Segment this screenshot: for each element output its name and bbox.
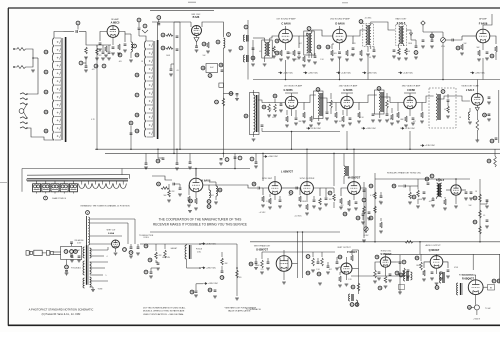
- svg-text:.05: .05: [483, 215, 485, 217]
- tube V16: [341, 263, 352, 274]
- svg-text:VERT OUTPUT: VERT OUTPUT: [337, 247, 351, 249]
- svg-text:120: 120: [239, 277, 242, 279]
- wire x131 drop: [129, 121, 133, 150]
- transformer T8: [429, 88, 456, 128]
- wire ant to bandswitch: [27, 58, 38, 94]
- svg-text:D 6AU6: D 6AU6: [335, 21, 345, 25]
- components V7: [334, 103, 376, 130]
- svg-text:RECEIVER MAKES IT POSSIBLE TO: RECEIVER MAKES IT POSSIBLE TO BRING YOU …: [153, 223, 247, 227]
- wire feed top: [157, 19, 180, 24]
- transformer T6: [314, 88, 324, 125]
- wire video out right: [487, 90, 499, 167]
- wire sound in: [239, 20, 248, 80]
- wires V8: [404, 93, 422, 116]
- CRT neck: [34, 250, 47, 255]
- components V9: [468, 97, 491, 142]
- text copyright: [42, 313, 81, 316]
- label V2: [192, 14, 201, 19]
- wires V11: [263, 188, 287, 200]
- svg-text:HORIZ OSC: HORIZ OSC: [381, 251, 392, 253]
- svg-text:.05: .05: [272, 117, 274, 119]
- components T3: [359, 47, 376, 62]
- svg-text:+ 9000 V: + 9000 V: [473, 318, 481, 320]
- svg-text:A 6BC5: A 6BC5: [111, 22, 120, 25]
- label V19: [459, 275, 475, 281]
- text note2 l1: [224, 306, 257, 309]
- label V11: [262, 170, 293, 180]
- tube V10: [189, 178, 203, 192]
- label V4: [330, 17, 350, 25]
- components V3 cathode: [275, 50, 290, 61]
- tube V14: [451, 185, 461, 195]
- caps sync row: [144, 158, 192, 170]
- components V10: [187, 185, 211, 210]
- riser x256: [250, 153, 258, 168]
- wires V16: [346, 257, 358, 280]
- components V19: [457, 279, 500, 295]
- wires CRT: [53, 252, 61, 255]
- transformer T10: [431, 179, 447, 210]
- svg-text:2ND VIDEO IF AMP: 2ND VIDEO IF AMP: [339, 84, 358, 87]
- svg-text:AUDIO OUTPUT: AUDIO OUTPUT: [425, 244, 441, 247]
- test points L2 column: [135, 53, 139, 133]
- svg-text:.05: .05: [176, 70, 178, 72]
- wires V5: [462, 14, 496, 50]
- components V15 left: [249, 252, 270, 274]
- wire sync right: [209, 185, 250, 188]
- transformer T2: [304, 27, 314, 62]
- label V8: [402, 84, 421, 92]
- electrolytic C20: [430, 32, 434, 48]
- components V11: [250, 176, 282, 214]
- wire rail y242: [250, 241, 500, 243]
- CRT socket plug: [26, 251, 32, 256]
- risers deflection: [262, 148, 355, 186]
- svg-text:+135 VDC: +135 VDC: [311, 128, 321, 130]
- wires V3: [286, 26, 300, 50]
- svg-text:+265 VDC: +265 VDC: [475, 72, 485, 74]
- svg-text:MODELS. WHEN DOTTED IN PARTS A: MODELS. WHEN DOTTED IN PARTS ARE: [143, 310, 185, 313]
- svg-text:.01: .01: [369, 57, 371, 59]
- B+ arrow 1: [199, 243, 216, 246]
- wire IF feed B: [179, 22, 181, 150]
- RF tuning coil ladder L1: [53, 37, 66, 142]
- focus pot: [65, 260, 81, 276]
- label drum note: [81, 204, 130, 207]
- caps left of yoke: [70, 250, 81, 262]
- component on x222: [215, 83, 239, 106]
- svg-text:A PHOTOFACT STANDARD NOTATION: A PHOTOFACT STANDARD NOTATION SCHEMATIC: [29, 307, 94, 311]
- svg-text:VERT OUT: VERT OUT: [106, 230, 116, 232]
- B+ arrows sound: [278, 72, 485, 75]
- wire V15 box: [297, 231, 304, 278]
- tube V5: [476, 29, 490, 43]
- svg-text:+10 VDC: +10 VDC: [294, 216, 302, 218]
- transformer T1: [253, 38, 272, 66]
- svg-text:+265 VDC: +265 VDC: [366, 128, 376, 130]
- label V3: [276, 17, 296, 25]
- wire sync grid: [152, 176, 172, 180]
- label V20: [106, 230, 116, 235]
- components on feed: [161, 33, 179, 76]
- label V18: [425, 244, 441, 252]
- svg-text:.01: .01: [444, 109, 446, 111]
- tube V15: [276, 256, 292, 272]
- afc left column: [362, 173, 383, 243]
- wire v x253: [251, 40, 255, 66]
- wire T6 to V7: [318, 98, 341, 103]
- components T7: [371, 93, 394, 125]
- svg-text:(C) Howard W. Sams & Co., Inc.: (C) Howard W. Sams & Co., Inc. 1952: [42, 313, 81, 316]
- svg-text:C 6AU6: C 6AU6: [281, 21, 291, 25]
- wire T3 to T4: [371, 22, 395, 30]
- svg-text:.047: .047: [412, 121, 415, 123]
- components sync in: [157, 182, 182, 202]
- drum contact squares: [33, 181, 78, 194]
- wire vert out right: [351, 275, 404, 277]
- svg-text:COILS: COILS: [143, 237, 149, 239]
- wires V1: [100, 32, 125, 46]
- antenna terminal AN1: [13, 48, 29, 51]
- wire bus x222: [0, 0, 1, 1]
- wires V14: [446, 190, 466, 208]
- wires V7: [341, 93, 359, 116]
- yoke winding 2: [83, 261, 85, 275]
- drum bar: [27, 179, 128, 181]
- tube V17: [380, 257, 390, 267]
- margin speck 1: [188, 1, 196, 3]
- svg-text:H 6CB6: H 6CB6: [344, 89, 354, 92]
- coil L3: [125, 34, 136, 62]
- risers to sound rail: [285, 42, 483, 80]
- sync out coil: [209, 182, 222, 204]
- wire rail y153: [105, 152, 500, 154]
- svg-text:VALUE OR APPLICATION: VALUE OR APPLICATION: [228, 310, 251, 313]
- drum wiper arcs: [79, 181, 127, 189]
- text note1 l3: [143, 313, 185, 316]
- wire L1 top: [54, 32, 64, 39]
- svg-text:.002: .002: [298, 43, 301, 45]
- svg-text:+135 VDC: +135 VDC: [206, 243, 216, 245]
- wire to RF grid: [86, 32, 97, 46]
- label continued: [246, 308, 261, 311]
- vert out tube small: [90, 240, 127, 255]
- drum top line: [27, 175, 130, 179]
- transformer T3: [359, 20, 373, 56]
- resistor in rail y242: [405, 241, 413, 244]
- components V16: [335, 255, 353, 287]
- video mid rail: [261, 125, 340, 132]
- svg-text:B 6J6: B 6J6: [193, 16, 200, 19]
- svg-text:HEIGHT: HEIGHT: [171, 248, 177, 250]
- label V9: [461, 85, 479, 92]
- svg-text:.005: .005: [333, 53, 336, 55]
- transformer T7: [375, 87, 385, 122]
- B+ arrow 3: [190, 282, 218, 297]
- components V12 plate: [318, 188, 335, 210]
- text photofact: [29, 307, 94, 311]
- svg-text:270: 270: [311, 119, 314, 121]
- misc value labels: [91, 43, 491, 281]
- wires V4: [340, 26, 354, 50]
- border smudge: [150, 9, 214, 11]
- pilot lamp: [468, 305, 492, 310]
- yoke core: [87, 245, 89, 285]
- svg-text:.047: .047: [428, 201, 431, 203]
- yoke winding 3: [83, 278, 85, 288]
- band switch wafer S1A: [19, 93, 28, 129]
- wire T8 to det: [436, 96, 470, 101]
- svg-text:FOCUS: FOCUS: [196, 249, 203, 251]
- margin tick: [0, 182, 7, 184]
- wires V18: [424, 254, 448, 274]
- components V14 right: [464, 179, 489, 243]
- svg-text:+265 VDC: +265 VDC: [208, 283, 218, 285]
- components V15 right: [306, 252, 330, 285]
- components V5: [477, 46, 497, 61]
- svg-text:HORIZ AFC PHASE DET HORIZ OS: HORIZ AFC PHASE DET HORIZ OSC: [387, 171, 422, 174]
- CRT grid box: [61, 246, 82, 259]
- svg-text:VERT PHASE DET: VERT PHASE DET: [254, 245, 271, 248]
- tube V8: [404, 96, 416, 108]
- border left: [7, 8, 9, 326]
- wires V12: [287, 176, 320, 202]
- svg-text:+260 VDC: +260 VDC: [268, 156, 278, 158]
- yoke tap wires: [90, 250, 108, 287]
- label horiz afc: [387, 171, 422, 174]
- svg-text:* SEE PARTS LIST FOR ALTERNATE: * SEE PARTS LIST FOR ALTERNATE: [224, 306, 257, 309]
- svg-text:+265 VDC: +265 VDC: [206, 267, 216, 269]
- wires V6: [285, 93, 304, 116]
- transformer T11: [349, 294, 359, 306]
- svg-text:J 6AL5: J 6AL5: [466, 89, 475, 92]
- components V13: [339, 198, 365, 224]
- components V6: [285, 110, 321, 130]
- test points L1 column: [44, 50, 48, 133]
- components ratio det: [392, 40, 425, 60]
- transformer T12: [435, 272, 444, 289]
- svg-text:4.5 MC: 4.5 MC: [365, 18, 372, 20]
- osc trimmer C9: [157, 16, 161, 20]
- rail labels: [263, 144, 435, 158]
- label T3: [365, 18, 372, 20]
- components AF grid: [456, 44, 464, 55]
- wires V17: [375, 254, 420, 276]
- diamond TP: [421, 21, 425, 32]
- svg-text:TO HV: TO HV: [485, 308, 491, 310]
- ground ant: [31, 70, 35, 72]
- wires V15: [282, 250, 297, 284]
- svg-text:1ST VIDEO IF AMP: 1ST VIDEO IF AMP: [284, 84, 303, 87]
- svg-text:+265 VDC: +265 VDC: [367, 72, 377, 74]
- wire L2 top: [139, 22, 158, 41]
- wire vert right: [351, 250, 360, 294]
- wire conv to V6: [258, 100, 285, 103]
- fine tuning cap C8: [137, 18, 141, 36]
- components V17: [373, 255, 392, 290]
- label V13: [348, 176, 361, 179]
- volume control R21: [441, 32, 452, 48]
- label V5: [479, 17, 488, 25]
- svg-text:4: 4: [107, 256, 108, 258]
- svg-text:+ 0 VDC: + 0 VDC: [259, 212, 267, 214]
- svg-text:FOCUS ADJ: FOCUS ADJ: [71, 267, 81, 270]
- mixer coil ladder L2: [145, 40, 158, 139]
- svg-text:+135 VDC: +135 VDC: [425, 145, 435, 147]
- wire osc top: [0, 0, 1, 1]
- wire vert row top: [262, 251, 335, 253]
- components T2: [302, 45, 321, 67]
- wires V13: [341, 176, 367, 233]
- svg-text:HORIZ: HORIZ: [364, 235, 369, 237]
- transformer T4: [396, 25, 407, 46]
- svg-text:I 6CB6: I 6CB6: [407, 89, 415, 92]
- svg-text:2ND SOUND IF AMP: 2ND SOUND IF AMP: [330, 17, 350, 20]
- wire T7 to V8: [379, 97, 404, 103]
- tube V12: [301, 182, 314, 195]
- svg-text:5: 5: [106, 275, 107, 277]
- components T6: [309, 93, 332, 127]
- cluster below RF: [94, 45, 111, 68]
- wire bus x97: [96, 45, 98, 150]
- components V8: [396, 103, 424, 130]
- svg-text:S 6S4: S 6S4: [108, 232, 115, 235]
- svg-text:SYNC SEP: SYNC SEP: [262, 178, 273, 180]
- svg-text:VERT LIN: VERT LIN: [162, 257, 170, 259]
- wires V19: [462, 275, 488, 305]
- capacitor C1: [64, 30, 87, 33]
- border bottom: [8, 324, 500, 326]
- wire V8 plate: [422, 96, 434, 103]
- components V3 screen: [292, 50, 301, 61]
- components CRT box: [64, 242, 80, 256]
- tube V7: [341, 96, 353, 108]
- yoke secondary: [90, 248, 92, 287]
- test point TP3: [79, 57, 88, 72]
- antenna terminal AN2: [13, 66, 29, 69]
- text cooperation line2: [153, 223, 247, 227]
- label drum: [44, 196, 67, 200]
- svg-text:G 6CB6: G 6CB6: [283, 89, 293, 92]
- svg-text:VIDEO DET TUBE: VIDEO DET TUBE: [461, 85, 479, 87]
- margin speck 2: [342, 2, 348, 4]
- wire sound B+ rail: [253, 79, 500, 81]
- svg-text:.01: .01: [423, 271, 425, 273]
- riser x235b: [234, 156, 242, 160]
- components V2: [194, 38, 210, 54]
- svg-text:+140 VDC: +140 VDC: [403, 72, 413, 74]
- svg-text:.002: .002: [210, 195, 213, 197]
- wire right edge: [499, 254, 500, 283]
- svg-text:+140 VDC: +140 VDC: [283, 72, 293, 74]
- svg-text:N 6AL5: N 6AL5: [436, 179, 445, 182]
- wire rail y232: [150, 231, 340, 233]
- components focus: [144, 244, 177, 278]
- tube V11: [269, 182, 282, 195]
- svg-text:RATIO DET: RATIO DET: [396, 17, 408, 20]
- tube V4: [333, 29, 347, 43]
- risers rails: [291, 131, 411, 150]
- label V7: [339, 84, 358, 92]
- svg-text:270: 270: [295, 59, 298, 61]
- tube V6: [285, 96, 297, 108]
- svg-text:COIL: COIL: [197, 251, 201, 253]
- wires V10: [196, 169, 209, 199]
- yoke winding 1: [83, 247, 85, 258]
- label V17: [380, 251, 392, 257]
- ground mid: [188, 211, 192, 213]
- svg-text:.005: .005: [118, 61, 121, 63]
- svg-text:3RD VIDEO IF AMP: 3RD VIDEO IF AMP: [402, 84, 421, 87]
- svg-text:USED POINTS APPROX + SEE DECIM: USED POINTS APPROX + SEE DECIMAL: [143, 313, 185, 316]
- vert deflection coil upper: [74, 211, 135, 246]
- transformer T9: [344, 153, 349, 184]
- focus coil: [185, 244, 203, 259]
- svg-text:L 6SN7GT: L 6SN7GT: [281, 170, 293, 173]
- svg-text:AF AMP: AF AMP: [479, 17, 487, 20]
- svg-text:.005: .005: [378, 201, 381, 203]
- tube V13: [348, 182, 361, 195]
- text note1 l1: [143, 306, 186, 309]
- wire ant join: [29, 49, 38, 67]
- risers afc: [418, 178, 500, 186]
- svg-text:DOTTED IN PARTS ARE NOT USED I: DOTTED IN PARTS ARE NOT USED IN ALL: [143, 306, 186, 309]
- wire audio top: [419, 241, 500, 270]
- wire focus rail: [140, 243, 200, 245]
- wire V3 plate: [299, 33, 307, 36]
- svg-text:Q 6K6GT: Q 6K6GT: [429, 249, 440, 252]
- label V15: [254, 245, 271, 252]
- wire V7 plate: [359, 95, 377, 103]
- tube V19: [468, 280, 483, 295]
- components T1: [270, 36, 279, 58]
- border top: [8, 7, 500, 9]
- text note2 l2: [228, 310, 251, 313]
- diode D1: [406, 30, 412, 40]
- svg-text:120: 120: [339, 121, 342, 123]
- svg-text:CHAN 2 THRU 6: CHAN 2 THRU 6: [52, 197, 66, 200]
- wire sync hang: [146, 148, 190, 163]
- wire V6 plate: [304, 95, 316, 103]
- label V10: [202, 180, 212, 183]
- components right of focus: [200, 244, 239, 300]
- svg-text:THE COOPERATION OF THE MANUFAC: THE COOPERATION OF THE MANUFACTURER OF T…: [159, 218, 242, 222]
- diode V9: [475, 105, 479, 119]
- resistor R1: [84, 47, 88, 59]
- transformer T5 conv: [244, 90, 259, 141]
- tuner agc box: [201, 63, 223, 77]
- tube V3: [279, 29, 293, 43]
- transformer T13: [399, 271, 413, 290]
- label V6: [283, 84, 302, 92]
- components conv: [262, 94, 283, 117]
- wire V4 to T3: [353, 30, 366, 36]
- svg-text:1ST SOUND IF AMP: 1ST SOUND IF AMP: [276, 17, 296, 20]
- focus coil wires top: [107, 247, 109, 250]
- tube V18: [430, 256, 443, 269]
- svg-text:270: 270: [261, 269, 264, 271]
- svg-text:SYNC CLIPPER: SYNC CLIPPER: [300, 178, 315, 180]
- osc coil L5: [216, 33, 232, 165]
- wire audio coupling: [423, 32, 462, 41]
- yoke ground: [91, 287, 103, 292]
- text note1 l2: [143, 310, 185, 313]
- wire drum drops: [22, 153, 236, 191]
- label deflection: [139, 235, 154, 239]
- components V12: [289, 187, 316, 218]
- wire T2 to V4: [312, 30, 333, 36]
- test point TP2: [76, 21, 80, 29]
